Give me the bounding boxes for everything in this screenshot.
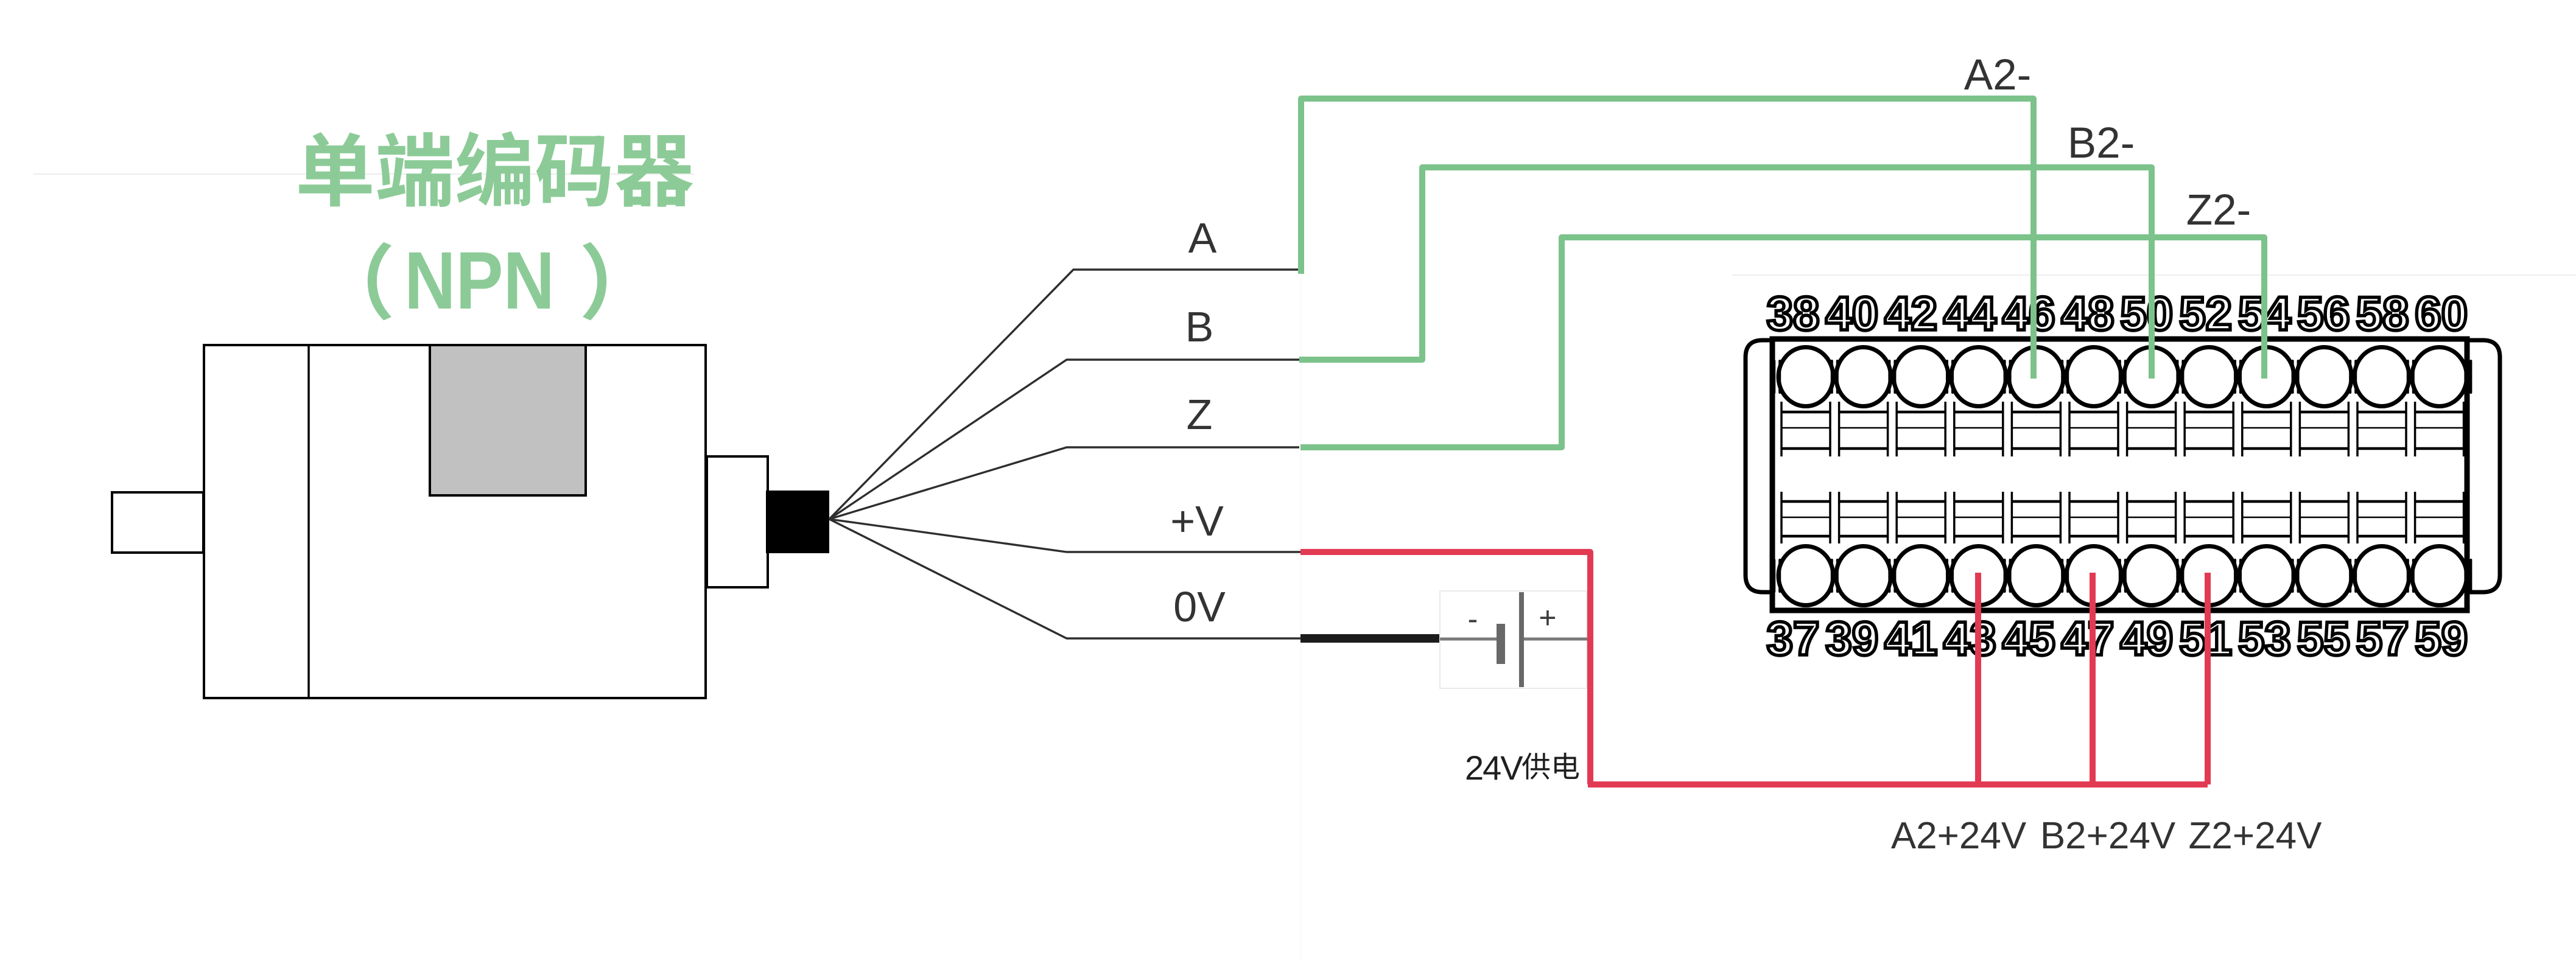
svg-text:38: 38 xyxy=(1767,287,1820,340)
svg-text:43: 43 xyxy=(1943,612,1996,665)
red wire +V to battery + xyxy=(1300,552,1590,784)
red riser to pin 51 xyxy=(2205,573,2211,784)
svg-text:Z2-: Z2- xyxy=(2186,186,2251,234)
svg-text:A: A xyxy=(1188,214,1217,262)
pin 56 xyxy=(2297,287,2351,456)
pin 46 xyxy=(2002,287,2064,456)
battery negative lead xyxy=(1440,638,1497,641)
pin 57 xyxy=(2354,492,2409,665)
pin 48 xyxy=(2062,287,2121,456)
svg-text:58: 58 xyxy=(2356,287,2409,340)
pin 44 xyxy=(1943,287,2006,456)
svg-text:A2-: A2- xyxy=(1964,51,2032,99)
red 24V rail xyxy=(1588,781,2208,788)
pin 38 xyxy=(1767,287,1833,456)
battery positive lead xyxy=(1524,638,1591,641)
label 24V供电 xyxy=(1465,749,1579,787)
encoder body xyxy=(204,345,706,698)
svg-text:NPN: NPN xyxy=(404,236,555,326)
pin neck connectors xyxy=(1774,361,2471,592)
0V lead (thick black) xyxy=(1300,634,1441,643)
battery positive plate xyxy=(1519,592,1524,687)
pin 59 xyxy=(2412,492,2468,665)
cable boot (black) xyxy=(766,491,829,553)
svg-text:60: 60 xyxy=(2415,287,2468,340)
pin 53 xyxy=(2238,492,2294,665)
svg-text:B2-: B2- xyxy=(2068,119,2135,167)
terminal block body xyxy=(1772,339,2467,610)
svg-text:53: 53 xyxy=(2238,612,2291,665)
terminal block right ear xyxy=(2465,340,2500,592)
svg-text:46: 46 xyxy=(2002,287,2055,340)
svg-text:A2+24V: A2+24V xyxy=(1891,815,2027,857)
svg-text:+V: +V xyxy=(1170,497,1224,545)
pin 51 xyxy=(2179,492,2236,665)
red riser to pin 47 xyxy=(2090,573,2096,784)
svg-text:45: 45 xyxy=(2002,612,2055,665)
svg-text:B2+24V: B2+24V xyxy=(2040,815,2176,857)
svg-text:49: 49 xyxy=(2120,612,2173,665)
svg-text:42: 42 xyxy=(1884,287,1937,340)
wire +V (black) xyxy=(829,519,1300,552)
svg-text:47: 47 xyxy=(2062,612,2114,665)
encoder shaft xyxy=(112,492,203,553)
pin 49 xyxy=(2120,492,2178,665)
svg-text:55: 55 xyxy=(2297,612,2350,665)
svg-text:-: - xyxy=(1468,602,1478,636)
wire 0V (black) xyxy=(829,519,1301,638)
svg-text:Z2+24V: Z2+24V xyxy=(2189,815,2323,857)
seam line vertical xyxy=(1300,277,1302,961)
svg-text:56: 56 xyxy=(2297,287,2350,340)
pin 52 xyxy=(2179,287,2236,456)
green wire Z to pin 54 (Z2-) xyxy=(1300,237,2264,447)
pin 47 xyxy=(2062,492,2121,665)
pin 39 xyxy=(1825,492,1890,665)
svg-text:39: 39 xyxy=(1825,612,1878,665)
svg-text:40: 40 xyxy=(1825,287,1878,340)
svg-text:37: 37 xyxy=(1767,612,1820,665)
red riser to pin 43 xyxy=(1975,573,1981,784)
rear connector xyxy=(707,456,768,587)
svg-text:52: 52 xyxy=(2179,287,2232,340)
pin 58 xyxy=(2354,287,2409,456)
pin 43 xyxy=(1943,492,2006,665)
svg-text:57: 57 xyxy=(2356,612,2409,665)
svg-text:0V: 0V xyxy=(1173,583,1226,630)
pin 45 xyxy=(2002,492,2064,665)
green wire A to pin 46 (A2-) xyxy=(1301,99,2034,379)
wire B (black) xyxy=(829,360,1299,519)
pin 40 xyxy=(1825,287,1890,456)
pin 54 xyxy=(2238,287,2294,456)
encoder front plate divider xyxy=(307,345,310,698)
pin 50 xyxy=(2120,287,2178,456)
svg-text:+: + xyxy=(1539,601,1556,635)
pin 42 xyxy=(1884,287,1948,456)
encoder cap (gray block) xyxy=(430,345,586,495)
svg-text:48: 48 xyxy=(2062,287,2114,340)
seam line left xyxy=(33,173,694,175)
seam line right xyxy=(1732,274,2576,276)
pin 60 xyxy=(2412,287,2468,456)
encoder title line 2: （NPN） xyxy=(368,236,606,326)
green wire B to pin 50 (B2-) xyxy=(1299,167,2152,379)
svg-text:44: 44 xyxy=(1943,287,1996,340)
svg-text:59: 59 xyxy=(2415,612,2468,665)
svg-text:B: B xyxy=(1185,303,1214,351)
svg-text:Z: Z xyxy=(1187,391,1213,438)
encoder title line 1: 单端编码器 xyxy=(299,131,693,207)
battery negative plate xyxy=(1497,624,1505,664)
battery panel xyxy=(1440,591,1587,688)
svg-text:24V: 24V xyxy=(1465,749,1523,787)
wire A (black) xyxy=(829,270,1299,519)
pin 41 xyxy=(1884,492,1948,665)
svg-text:50: 50 xyxy=(2120,287,2173,340)
pin 37 xyxy=(1767,492,1833,665)
pin 55 xyxy=(2297,492,2351,665)
terminal block left ear xyxy=(1746,340,1774,592)
svg-text:41: 41 xyxy=(1884,612,1937,665)
wire Z (black) xyxy=(829,447,1299,519)
